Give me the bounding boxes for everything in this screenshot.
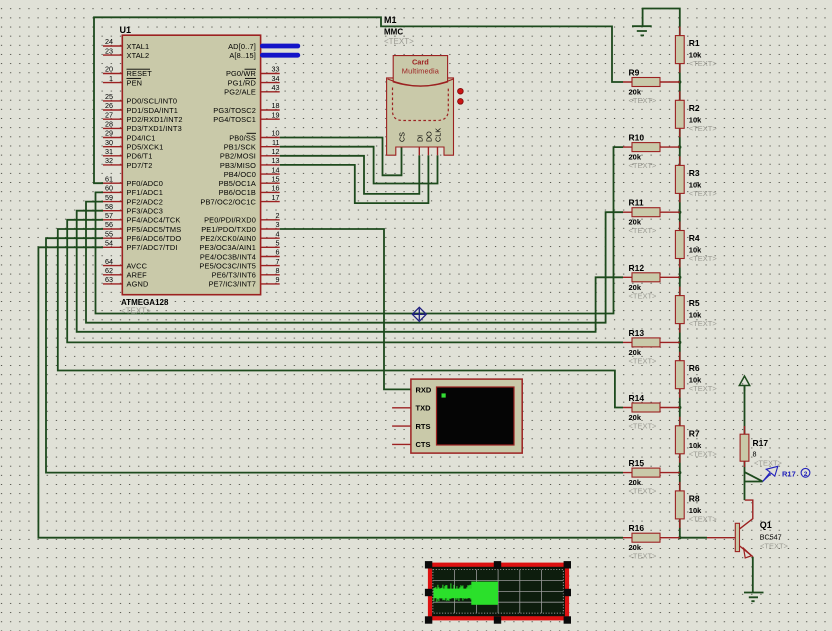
svg-text:PE4/OC3B/INT4: PE4/OC3B/INT4 <box>200 252 256 261</box>
pin 64 AVCC <box>103 257 148 271</box>
svg-text:R15: R15 <box>629 458 645 468</box>
svg-text:2: 2 <box>276 211 280 220</box>
svg-text:Multimedia: Multimedia <box>402 67 440 76</box>
pin 16 PB6/OC1B <box>219 184 280 198</box>
wire PF6 to R15 <box>46 238 623 472</box>
wire PF7 to R16 <box>38 247 623 537</box>
pin 43 PG2/ALE <box>224 83 280 97</box>
pin 20 RESET <box>103 65 152 79</box>
svg-text:55: 55 <box>105 229 113 238</box>
wire PF2 to R11 <box>86 202 623 323</box>
pin 12 PB2/MOSI <box>220 147 280 161</box>
svg-text:58: 58 <box>105 202 113 211</box>
svg-text:MMC: MMC <box>384 28 403 37</box>
graph grid lines <box>433 570 563 614</box>
svg-text:18: 18 <box>272 101 280 110</box>
MMC socket seat arc <box>388 79 454 86</box>
resistor R16 20k <box>623 523 680 561</box>
svg-text:4: 4 <box>276 229 280 238</box>
svg-text:PG3/TOSC2: PG3/TOSC2 <box>213 106 256 115</box>
pin 2 PE0/PDI/RXD0 <box>204 211 280 225</box>
svg-text:R17: R17 <box>782 470 796 479</box>
svg-text:33: 33 <box>272 65 280 74</box>
graph waveform noise <box>434 583 471 602</box>
wire PB1/SCK to MMC CLK <box>280 147 438 184</box>
wire PB3/MISO to MMC DO <box>280 155 429 203</box>
svg-text:PE6/T3/INT6: PE6/T3/INT6 <box>212 271 256 280</box>
pin 3 PE1/PDO/TXD0 <box>201 220 279 234</box>
wire R16 node to Q1 base <box>680 537 707 539</box>
terminal pin RXD <box>416 385 432 394</box>
svg-text:<TEXT>: <TEXT> <box>760 542 789 551</box>
svg-text:PF7/ADC7/TDI: PF7/ADC7/TDI <box>127 243 178 252</box>
svg-text:54: 54 <box>105 239 113 248</box>
svg-text:<TEXT>: <TEXT> <box>629 291 658 300</box>
svg-text:RTS: RTS <box>416 422 431 431</box>
svg-text:AGND: AGND <box>127 280 149 289</box>
svg-text:R1: R1 <box>689 38 700 48</box>
wire R17 bottom to Q1 collector <box>744 461 746 500</box>
graph waveform block <box>471 582 498 605</box>
svg-text:DI: DI <box>415 135 424 142</box>
pin 15 PB5/OC1A <box>219 174 280 188</box>
svg-text:R14: R14 <box>629 393 645 403</box>
svg-text:<TEXT>: <TEXT> <box>629 226 658 235</box>
graph plot area <box>433 570 563 614</box>
resistor R17 8ohm <box>740 426 782 468</box>
pin 60 PF1/ADC1 <box>103 184 163 198</box>
svg-text:11: 11 <box>272 138 279 147</box>
svg-text:PG1/RD: PG1/RD <box>228 78 256 87</box>
svg-text:2: 2 <box>804 471 808 478</box>
pin 28 PD3/TXD1/INT3 <box>103 120 182 134</box>
pin 9 PE7/IC3/INT7 <box>209 275 280 289</box>
virtual terminal body <box>411 379 522 453</box>
svg-text:<TEXT>: <TEXT> <box>629 96 658 105</box>
graph waveform core band <box>434 589 472 599</box>
selection handles <box>425 561 571 624</box>
svg-text:<TEXT>: <TEXT> <box>689 384 718 393</box>
pin 18 PG3/TOSC2 <box>213 101 279 115</box>
wire resistor ladder vertical <box>679 36 681 538</box>
svg-text:62: 62 <box>105 266 113 275</box>
pin 11 PB1/SCK <box>224 138 280 152</box>
svg-text:PD1/SDA/INT1: PD1/SDA/INT1 <box>127 106 179 115</box>
svg-text:R2: R2 <box>689 103 700 113</box>
svg-text:<TEXT>: <TEXT> <box>689 449 718 458</box>
wire PF5 to R14 <box>58 229 623 408</box>
svg-text:5: 5 <box>276 239 280 248</box>
svg-text:63: 63 <box>105 275 113 284</box>
svg-text:R11: R11 <box>629 198 644 208</box>
voltage probe R17(2) blue arrow <box>763 466 778 481</box>
pin 33 PG0/WR <box>226 65 280 79</box>
junction dots on ladder nodes <box>678 80 681 539</box>
svg-text:XTAL2: XTAL2 <box>127 51 150 60</box>
svg-text:PE3/OC3A/AIN1: PE3/OC3A/AIN1 <box>199 243 256 252</box>
svg-text:RESET: RESET <box>127 69 153 78</box>
svg-text:PF4/ADC4/TCK: PF4/ADC4/TCK <box>127 216 181 225</box>
wire probe kink segment <box>745 472 763 481</box>
svg-text:30: 30 <box>105 138 113 147</box>
svg-text:59: 59 <box>105 193 113 202</box>
audio graph frame <box>430 565 567 619</box>
wire PF4 to R13 <box>67 220 623 343</box>
svg-text:PE5/OC3C/INT5: PE5/OC3C/INT5 <box>199 261 256 270</box>
svg-text:15: 15 <box>272 174 280 183</box>
pin 14 PB4/OC0 <box>224 165 280 179</box>
pin 27 PD2/RXD1/INT2 <box>103 110 183 124</box>
MMC pin stubs DI DO CLK <box>419 147 437 155</box>
svg-text:56: 56 <box>105 220 113 229</box>
svg-text:6: 6 <box>276 248 280 257</box>
svg-text:PF0/ADC0: PF0/ADC0 <box>127 179 164 188</box>
svg-text:CTS: CTS <box>416 440 431 449</box>
svg-text:8: 8 <box>753 450 757 459</box>
resistor R15 20k <box>623 458 680 496</box>
svg-text:17: 17 <box>272 193 280 202</box>
svg-text:24: 24 <box>105 37 113 46</box>
pin 32 PD7/T2 <box>103 156 152 170</box>
svg-text:PD4/IC1: PD4/IC1 <box>127 133 156 142</box>
resistor R3 10k <box>675 156 717 202</box>
svg-text:AREF: AREF <box>127 271 148 280</box>
ground (top right) <box>632 26 652 35</box>
pin 56 PF5/ADC5/TMS <box>103 220 181 234</box>
pin 7 PE5/OC3C/INT5 <box>199 257 279 271</box>
resistor R1 10k <box>675 27 717 73</box>
svg-text:57: 57 <box>105 211 113 220</box>
svg-text:R16: R16 <box>629 523 645 533</box>
output terminal arrow (audio) <box>739 376 749 391</box>
svg-text:28: 28 <box>105 120 113 129</box>
svg-text:PEN: PEN <box>127 78 143 87</box>
pin 34 PG1/RD <box>228 74 280 88</box>
wire Q1 emitter to ground <box>752 557 754 593</box>
wire PF3 to R12 <box>77 211 623 332</box>
svg-text:R8: R8 <box>689 493 700 503</box>
MMC write-protect LED 1 <box>458 88 464 94</box>
svg-text:27: 27 <box>105 110 113 119</box>
svg-text:23: 23 <box>105 46 113 55</box>
resistor R6 10k <box>675 352 717 398</box>
svg-text:PB0/SS: PB0/SS <box>229 133 256 142</box>
wire PB2/MOSI to MMC DI <box>280 155 420 194</box>
svg-text:PG0/WR: PG0/WR <box>226 69 256 78</box>
svg-text:16: 16 <box>272 184 280 193</box>
svg-text:3: 3 <box>276 220 280 229</box>
pin 24 XTAL1 <box>103 37 149 51</box>
svg-text:PD6/T1: PD6/T1 <box>127 152 153 161</box>
svg-text:R17: R17 <box>753 438 769 448</box>
svg-text:<TEXT>: <TEXT> <box>629 422 658 431</box>
svg-text:TXD: TXD <box>416 404 432 413</box>
svg-text:20: 20 <box>105 65 113 74</box>
pin 8 PE6/T3/INT6 <box>212 266 280 280</box>
pin 59 PF2/ADC2 <box>103 193 163 207</box>
svg-text:43: 43 <box>272 83 280 92</box>
resistor R5 10k <box>675 287 717 333</box>
pin 29 PD4/IC1 <box>103 129 155 143</box>
MMC card top (Card Multimedia) <box>393 56 447 87</box>
op chip U1 ATMEGA128 body <box>122 35 260 295</box>
resistor R4 10k <box>675 222 717 268</box>
svg-text:7: 7 <box>276 257 280 266</box>
ground (Q1 emitter) <box>744 593 764 602</box>
svg-text:PE2/XCK0/AIN0: PE2/XCK0/AIN0 <box>200 234 256 243</box>
wire PF1 to R10 <box>96 147 624 313</box>
svg-text:PD2/RXD1/INT2: PD2/RXD1/INT2 <box>127 115 183 124</box>
svg-text:14: 14 <box>272 165 280 174</box>
svg-text:R13: R13 <box>629 328 645 338</box>
svg-text:26: 26 <box>105 101 113 110</box>
MMC socket body M1 <box>387 78 454 155</box>
pin 10 PB0/SS <box>229 129 279 143</box>
svg-text:31: 31 <box>105 147 113 156</box>
pin 31 PD6/T1 <box>103 147 152 161</box>
svg-text:R4: R4 <box>689 233 700 243</box>
svg-text:9: 9 <box>276 275 280 284</box>
resistor R12 20k <box>623 263 680 301</box>
resistor R11 20k <box>623 198 680 236</box>
svg-text:<TEXT>: <TEXT> <box>689 189 718 198</box>
svg-text:A[8..15]: A[8..15] <box>229 51 256 60</box>
svg-text:PD5/XCK1: PD5/XCK1 <box>127 143 164 152</box>
terminal cursor <box>442 393 446 397</box>
resistor R7 10k <box>675 417 717 463</box>
svg-text:PB2/MOSI: PB2/MOSI <box>220 152 256 161</box>
pin 63 AGND <box>103 275 148 289</box>
svg-text:PB1/SCK: PB1/SCK <box>224 143 256 152</box>
svg-text:29: 29 <box>105 129 113 138</box>
svg-text:PG4/TOSC1: PG4/TOSC1 <box>213 115 256 124</box>
pin 58 PF3/ADC3 <box>103 202 163 216</box>
pin 25 PD0/SCL/INT0 <box>103 92 177 106</box>
svg-text:34: 34 <box>272 74 280 83</box>
svg-text:R5: R5 <box>689 298 700 308</box>
svg-text:BC547: BC547 <box>760 533 782 542</box>
bus AD[0..7] <box>228 42 300 51</box>
svg-text:PF5/ADC5/TMS: PF5/ADC5/TMS <box>127 225 182 234</box>
pin 57 PF4/ADC4/TCK <box>103 211 180 225</box>
svg-text:12: 12 <box>272 147 280 156</box>
svg-text:PD0/SCL/INT0: PD0/SCL/INT0 <box>127 97 178 106</box>
terminal pin RTS <box>392 422 430 431</box>
svg-text:PE0/PDI/RXD0: PE0/PDI/RXD0 <box>204 216 256 225</box>
wire ground to R1 top <box>643 9 680 36</box>
wire PE1/TXD0 to terminal RXD <box>280 229 411 389</box>
svg-text:PB5/OC1A: PB5/OC1A <box>219 179 256 188</box>
terminal pin TXD <box>392 404 431 413</box>
MMC write-protect LED 2 <box>458 99 464 105</box>
svg-text:PE7/IC3/INT7: PE7/IC3/INT7 <box>209 280 256 289</box>
pin 61 PF0/ADC0 <box>103 174 163 188</box>
resistor R13 20k <box>623 328 680 366</box>
svg-text:DO: DO <box>424 131 433 142</box>
transistor Q1 BC547 <box>707 500 753 558</box>
svg-text:<TEXT>: <TEXT> <box>384 37 414 46</box>
terminal screen <box>437 387 515 445</box>
svg-text:Q1: Q1 <box>760 520 772 530</box>
wire audio terminal to R17 <box>744 386 746 435</box>
svg-text:AD[0..7]: AD[0..7] <box>228 42 256 51</box>
pin 19 PG4/TOSC1 <box>213 110 279 124</box>
resistor R14 20k <box>623 393 680 431</box>
svg-text:25: 25 <box>105 92 113 101</box>
pin 26 PD1/SDA/INT1 <box>103 101 178 115</box>
svg-text:13: 13 <box>272 156 280 165</box>
pin 30 PD5/XCK1 <box>103 138 163 152</box>
svg-text:PF1/ADC1: PF1/ADC1 <box>127 188 164 197</box>
pin 6 PE4/OC3B/INT4 <box>200 248 280 262</box>
svg-text:<TEXT>: <TEXT> <box>689 59 718 68</box>
svg-text:<TEXT>: <TEXT> <box>121 307 151 316</box>
svg-text:CLK: CLK <box>434 128 443 142</box>
svg-text:PB6/OC1B: PB6/OC1B <box>219 188 256 197</box>
pin 1 PEN <box>103 74 142 88</box>
svg-text:R9: R9 <box>629 68 640 78</box>
svg-text:10: 10 <box>272 129 280 138</box>
bus A[8..15] <box>229 51 300 60</box>
svg-text:PB7/OC2/OC1C: PB7/OC2/OC1C <box>200 197 256 206</box>
svg-text:CS: CS <box>397 132 406 142</box>
svg-text:R7: R7 <box>689 428 700 438</box>
svg-text:R10: R10 <box>629 133 645 143</box>
svg-text:<TEXT>: <TEXT> <box>689 514 718 523</box>
svg-text:PB3/MISO: PB3/MISO <box>220 161 256 170</box>
svg-text:<TEXT>: <TEXT> <box>689 254 718 263</box>
svg-text:<TEXT>: <TEXT> <box>629 161 658 170</box>
wire PB0/SS to MMC CS <box>280 138 402 176</box>
svg-text:61: 61 <box>105 174 113 183</box>
svg-text:PG2/ALE: PG2/ALE <box>224 88 256 97</box>
svg-text:<TEXT>: <TEXT> <box>689 319 718 328</box>
svg-text:8: 8 <box>276 266 280 275</box>
svg-text:19: 19 <box>272 110 280 119</box>
node marker (blue diamond) on PF1 net <box>412 307 426 321</box>
resistor R9 20k <box>623 68 680 106</box>
svg-text:U1: U1 <box>120 25 132 35</box>
svg-text:<TEXT>: <TEXT> <box>629 487 658 496</box>
MMC card dashed outline inside socket <box>393 88 449 121</box>
svg-text:<TEXT>: <TEXT> <box>689 124 718 133</box>
svg-text:PF6/ADC6/TDO: PF6/ADC6/TDO <box>127 234 182 243</box>
pin 4 PE2/XCK0/AIN0 <box>200 229 279 243</box>
pin 13 PB3/MISO <box>220 156 280 170</box>
svg-text:R6: R6 <box>689 363 700 373</box>
svg-text:32: 32 <box>105 156 113 165</box>
svg-text:<TEXT>: <TEXT> <box>629 356 658 365</box>
pin 55 PF6/ADC6/TDO <box>103 229 181 243</box>
resistor R2 10k <box>675 91 717 137</box>
svg-text:AVCC: AVCC <box>127 261 148 270</box>
svg-text:RXD: RXD <box>416 385 432 394</box>
svg-text:1: 1 <box>109 74 113 83</box>
svg-text:Card: Card <box>412 58 429 67</box>
svg-text:PF3/ADC3: PF3/ADC3 <box>127 207 164 216</box>
svg-text:PE1/PDO/TXD0: PE1/PDO/TXD0 <box>201 225 256 234</box>
svg-text:XTAL1: XTAL1 <box>127 42 150 51</box>
terminal pin CTS <box>392 440 430 449</box>
pin 62 AREF <box>103 266 147 280</box>
svg-text:R12: R12 <box>629 263 645 273</box>
pin 5 PE3/OC3A/AIN1 <box>199 239 279 253</box>
svg-text:64: 64 <box>105 257 113 266</box>
resistor R8 10k <box>675 482 717 528</box>
svg-text:60: 60 <box>105 184 113 193</box>
pin 17 PB7/OC2/OC1C <box>200 193 279 207</box>
wire PF0 to R9 net <box>94 17 623 183</box>
svg-text:PF2/ADC2: PF2/ADC2 <box>127 197 164 206</box>
svg-text:R3: R3 <box>689 168 700 178</box>
svg-text:PD3/TXD1/INT3: PD3/TXD1/INT3 <box>127 124 182 133</box>
pin 23 XTAL2 <box>103 46 149 60</box>
svg-text:<TEXT>: <TEXT> <box>629 552 658 561</box>
svg-text:PD7/T2: PD7/T2 <box>127 161 153 170</box>
svg-text:PB4/OC0: PB4/OC0 <box>224 170 256 179</box>
pin 54 PF7/ADC7/TDI <box>103 239 178 253</box>
resistor R10 20k <box>623 133 680 171</box>
svg-text:M1: M1 <box>384 15 397 25</box>
